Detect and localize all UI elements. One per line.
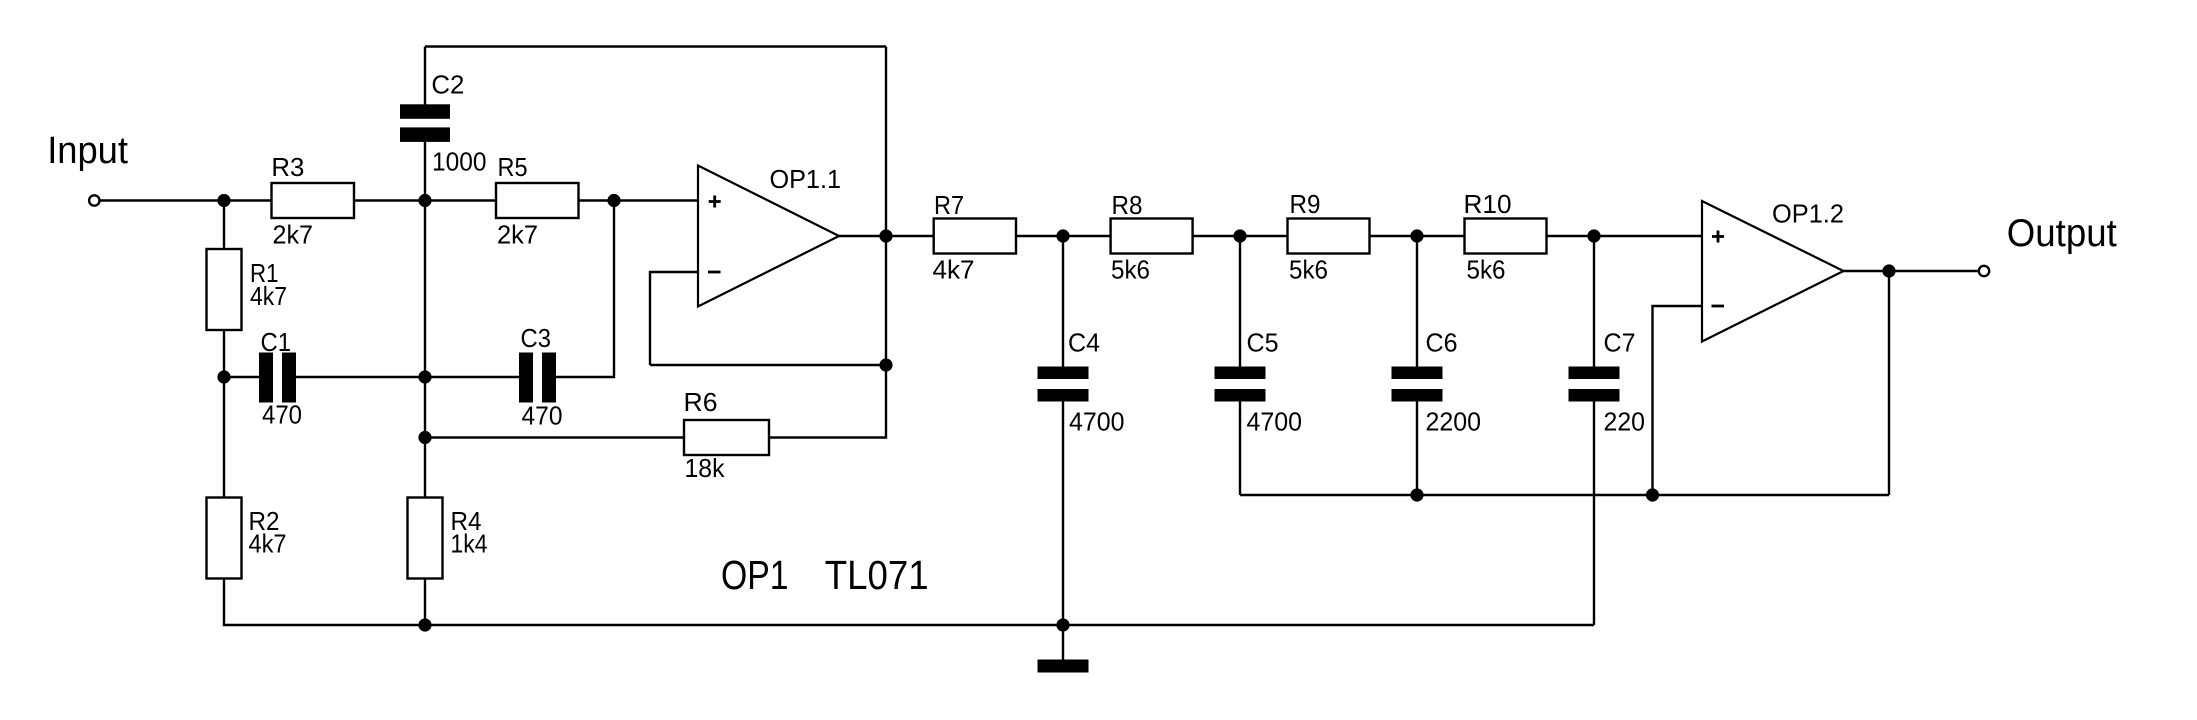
wire op-amp1 minus input <box>650 272 698 365</box>
wire C5 top <box>1239 236 1241 367</box>
svg-text:R8: R8 <box>1112 190 1143 220</box>
wire x425 vertical C2 node to R4 <box>424 201 426 498</box>
resistor R6 <box>684 420 769 455</box>
wire R2 to ground rail <box>224 579 425 626</box>
svg-text:5k6: 5k6 <box>1467 255 1506 285</box>
wire R9 to R10 <box>1370 235 1465 237</box>
svg-text:OP1.1: OP1.1 <box>770 164 842 194</box>
resistor R7 <box>934 219 1016 254</box>
wire R6 line left <box>425 436 684 438</box>
wire R8 to R9 <box>1193 235 1288 237</box>
svg-text:R3: R3 <box>271 152 304 182</box>
svg-text:OP1: OP1 <box>721 552 789 598</box>
svg-text:2200: 2200 <box>1426 407 1482 437</box>
wire top feedback <box>425 45 886 47</box>
resistor R9 <box>1288 219 1370 254</box>
svg-text:C2: C2 <box>431 70 464 100</box>
op-amp U1.1 plus pin <box>709 196 721 208</box>
node dot C1 left <box>217 370 230 383</box>
resistor R4 <box>408 498 443 579</box>
wire x425 to C3 <box>425 376 519 378</box>
svg-text:OP1.2: OP1.2 <box>1772 199 1844 229</box>
svg-text:470: 470 <box>262 400 302 430</box>
resistor R3 <box>272 183 355 218</box>
node Output terminal <box>1979 266 1989 276</box>
svg-text:R7: R7 <box>934 190 964 220</box>
wire C4 bottom to ground rail <box>1062 402 1064 626</box>
wire R6 right up to output <box>769 47 886 438</box>
node dot R10-C7 <box>1587 229 1600 242</box>
wire node A to C1 <box>224 376 259 378</box>
resistor R5 <box>496 183 579 218</box>
svg-text:R5: R5 <box>498 152 528 182</box>
svg-text:470: 470 <box>522 401 563 431</box>
wire output feedback vertical <box>1888 271 1890 495</box>
wire R7 to R8 <box>1016 235 1111 237</box>
node dot op-amp1 output <box>879 229 892 242</box>
node dot feedback1 <box>879 358 892 371</box>
node dot R9-C6 <box>1410 229 1423 242</box>
node dot R5 output junction <box>607 194 620 207</box>
svg-text:4k7: 4k7 <box>250 281 287 311</box>
op-amp U1.1 <box>698 166 839 307</box>
wire C6 top <box>1416 236 1418 367</box>
node dot R8-C5 <box>1233 229 1246 242</box>
op-amp U1.2 plus pin <box>1712 231 1724 243</box>
ground <box>1038 660 1089 673</box>
capacitor C1 plates <box>259 353 273 403</box>
wire R5 to op-amp <box>579 199 699 201</box>
wire ground rail <box>425 624 1594 626</box>
svg-text:C1: C1 <box>261 327 292 357</box>
wire feedback rail y495 <box>1240 494 1889 496</box>
wire op-amp1 output to R7 <box>839 235 934 237</box>
node dot C6 feedback <box>1410 488 1423 501</box>
svg-text:5k6: 5k6 <box>1289 255 1328 285</box>
wire node A down to R1 <box>223 201 225 250</box>
svg-text:C5: C5 <box>1247 328 1279 358</box>
svg-text:R6: R6 <box>684 387 718 417</box>
svg-text:Input: Input <box>47 130 128 172</box>
capacitor C5 plates <box>1215 367 1266 380</box>
svg-text:2k7: 2k7 <box>497 220 538 250</box>
wire R10 to op-amp2 <box>1547 235 1703 237</box>
svg-text:1k4: 1k4 <box>451 529 488 559</box>
svg-text:C7: C7 <box>1604 328 1636 358</box>
svg-text:R10: R10 <box>1464 189 1512 219</box>
wire C5 bottom <box>1239 402 1241 496</box>
wire ground stub <box>1062 625 1064 660</box>
wire R4 bottom <box>424 579 426 626</box>
resistor R10 <box>1465 219 1547 254</box>
svg-text:TL071: TL071 <box>825 552 929 598</box>
wire C2 to node <box>424 141 426 201</box>
wire C3 to R5 node <box>556 201 614 378</box>
wire C4 top <box>1062 236 1064 367</box>
node dot op-amp2 minus feedback <box>1646 488 1659 501</box>
node dot C2 junction <box>418 194 431 207</box>
op-amp U1.1 minus pin <box>708 271 721 274</box>
capacitor C6 plates <box>1392 367 1443 380</box>
op-amp U1.2 minus pin <box>1712 305 1725 308</box>
svg-text:4700: 4700 <box>1069 407 1125 437</box>
capacitor C2 plates <box>400 104 450 119</box>
svg-text:R9: R9 <box>1290 189 1321 219</box>
wire op-amp2 output <box>1844 270 1978 272</box>
svg-text:4700: 4700 <box>1247 407 1303 437</box>
wire R1 to R2 <box>223 330 225 498</box>
wire C6 bottom <box>1416 402 1418 496</box>
wire op-amp1 feedback bottom <box>650 364 886 366</box>
svg-text:C6: C6 <box>1426 328 1458 358</box>
node dot C4 ground <box>1056 618 1069 631</box>
svg-text:C3: C3 <box>521 323 552 353</box>
svg-text:18k: 18k <box>685 453 726 483</box>
wire C7 top <box>1593 236 1595 367</box>
node Input terminal <box>89 195 99 205</box>
wire input to node A <box>101 199 273 201</box>
resistor R8 <box>1111 219 1193 254</box>
svg-text:4k7: 4k7 <box>933 255 975 285</box>
node dot R4 ground <box>418 618 431 631</box>
node dot output junction <box>1882 264 1895 277</box>
resistor R1 <box>207 249 242 330</box>
capacitor C7 plates <box>1569 367 1620 380</box>
wire op-amp2 minus input <box>1653 306 1703 495</box>
node dot R6 junction <box>418 431 431 444</box>
wire C7 bottom to ground rail <box>1593 402 1595 626</box>
node dot R7-C4 <box>1056 229 1069 242</box>
wire R3 to C2 node <box>354 199 496 201</box>
capacitor C3 plates <box>519 353 533 403</box>
svg-text:220: 220 <box>1604 407 1646 437</box>
node dot C1-C3 junction <box>418 370 431 383</box>
op-amp U1.2 <box>1702 201 1844 342</box>
svg-text:5k6: 5k6 <box>1111 255 1150 285</box>
svg-text:C4: C4 <box>1068 328 1100 358</box>
svg-text:Output: Output <box>2007 212 2117 255</box>
wire C1 to x425 <box>296 376 425 378</box>
wire top to C2 <box>424 47 426 106</box>
svg-text:2k7: 2k7 <box>273 220 314 250</box>
svg-text:4k7: 4k7 <box>249 529 287 559</box>
svg-text:1000: 1000 <box>432 147 487 177</box>
resistor R2 <box>207 498 242 579</box>
node dot input junction <box>217 194 230 207</box>
capacitor C4 plates <box>1038 367 1089 380</box>
